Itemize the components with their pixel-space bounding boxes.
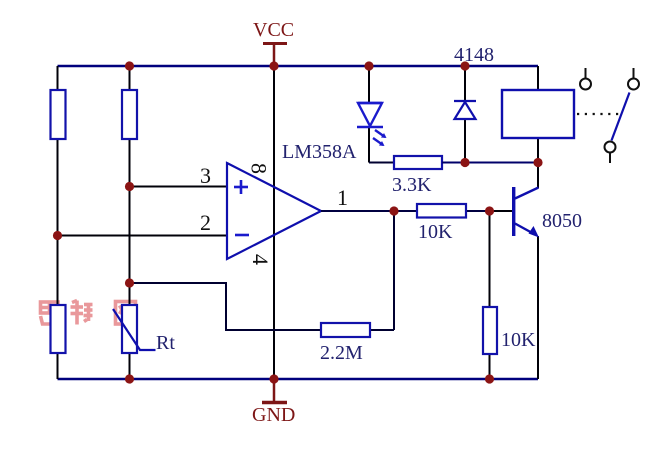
LED D1: [357, 103, 387, 146]
GND: [252, 379, 295, 426]
wire 10K vertical column: [489, 211, 491, 379]
svg-text:LM358A: LM358A: [282, 141, 357, 163]
wire emitter: [537, 236, 539, 379]
wire LED column: [368, 66, 370, 163]
svg-text:GND: GND: [252, 404, 295, 426]
resistor R3: [51, 305, 66, 353]
switch contact circles: [580, 79, 639, 153]
resistor 10K vertical: [483, 307, 497, 354]
resistor 10K horizontal: [417, 204, 466, 218]
svg-text:Rt: Rt: [156, 332, 175, 354]
switch contact stubs: [586, 68, 634, 163]
wire second column: [129, 66, 131, 379]
resistor R2: [122, 90, 137, 139]
svg-text:10K: 10K: [418, 221, 453, 243]
wire pin2: [58, 235, 228, 237]
resistor R1: [51, 90, 66, 139]
wire LED to 3.3K: [369, 162, 394, 164]
wire feedback: [130, 211, 395, 330]
switch blade: [612, 93, 630, 141]
resistor 2.2M: [321, 323, 370, 337]
transistor Q1 8050: [512, 187, 539, 238]
wire pin3: [130, 186, 228, 188]
switch actuator dotted link: [577, 113, 621, 115]
svg-text:2.2M: 2.2M: [320, 342, 363, 364]
wire 3.3K row: [442, 162, 538, 164]
wire collector: [537, 163, 539, 189]
svg-text:3.3K: 3.3K: [392, 174, 432, 196]
wire diode column: [464, 66, 466, 163]
svg-text:10K: 10K: [501, 329, 536, 351]
wire power vertical pin8 pin4: [273, 66, 275, 379]
svg-text:VCC: VCC: [253, 19, 294, 41]
thermistor Rt: [113, 305, 175, 354]
svg-text:2: 2: [200, 210, 211, 235]
svg-text:8050: 8050: [542, 210, 582, 232]
wire relay drop: [537, 66, 539, 163]
wire top rail: [58, 65, 539, 68]
wire output pin1: [321, 210, 513, 212]
svg-text:1: 1: [337, 185, 348, 210]
wire base: [490, 210, 513, 212]
watermark: [41, 301, 136, 325]
resistor 3.3K: [394, 156, 442, 169]
diode D2 4148: [454, 101, 476, 119]
svg-text:8: 8: [247, 163, 272, 174]
relay K1: [502, 90, 574, 138]
svg-text:3: 3: [200, 163, 211, 188]
svg-text:4: 4: [248, 254, 273, 265]
VCC: [253, 19, 294, 66]
op-amp U1: [227, 163, 321, 259]
svg-text:4148: 4148: [454, 44, 494, 66]
wire left column: [57, 66, 59, 379]
wire bottom rail: [58, 378, 539, 381]
